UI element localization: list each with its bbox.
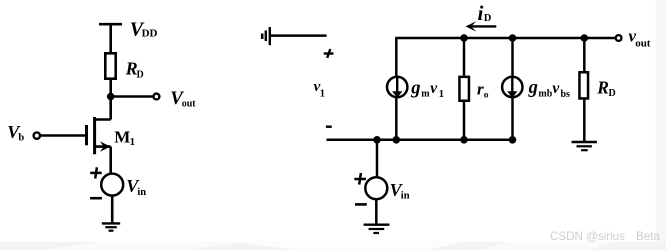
wire branch RD (top segment) [583, 38, 586, 73]
wire branch gm (top segment) [395, 38, 398, 78]
svg-text:m: m [421, 88, 430, 99]
svg-text:v: v [430, 80, 438, 97]
wire branch gmb (bottom segment) [511, 97, 514, 141]
label M1 [114, 127, 135, 148]
svg-text:CSDN @sirius: CSDN @sirius [550, 230, 625, 243]
wire branch ro (bottom segment) [463, 101, 466, 141]
svg-text:D: D [609, 88, 616, 99]
svg-text:i: i [478, 1, 484, 25]
node gm bottom [393, 136, 401, 144]
wire gate to Vb terminal [41, 134, 87, 137]
ground (right Vin) [364, 225, 390, 233]
label VDD [130, 18, 158, 40]
wire bus to Vin source (right) [376, 140, 379, 177]
svg-text:bs: bs [561, 89, 571, 100]
node drain junction [107, 93, 115, 101]
svg-text:1: 1 [439, 89, 444, 100]
resistor RD [105, 53, 115, 78]
wire branch RD to ground [583, 99, 586, 142]
node Vin junction [373, 136, 381, 144]
svg-text:b: b [18, 132, 24, 143]
label gmb vbs [528, 78, 570, 100]
resistor ro [459, 77, 469, 101]
svg-text:in: in [137, 187, 146, 198]
terminal Vb [34, 132, 40, 138]
source Vin (left) [101, 174, 123, 196]
label ro [477, 80, 489, 101]
label vout (right) [629, 26, 651, 49]
wire node to Vout terminal [111, 95, 153, 98]
label RD [125, 58, 144, 80]
svg-text:mb: mb [538, 88, 552, 99]
label RD (right) [596, 77, 615, 99]
label minus (left Vin) [90, 197, 102, 200]
svg-text:o: o [484, 91, 489, 101]
svg-text:g: g [528, 78, 538, 98]
source Vin (right) [365, 177, 387, 199]
label Vb [7, 122, 24, 144]
node gmb bottom [509, 136, 517, 144]
current source gmb*vbs [502, 77, 522, 98]
terminal Vout [154, 94, 160, 100]
label iD [478, 1, 492, 25]
terminal vout (right) [616, 35, 622, 41]
wire Vin to ground (left) [111, 196, 114, 223]
svg-text:out: out [182, 98, 197, 109]
node ro bottom [460, 136, 468, 144]
svg-text:1: 1 [320, 88, 325, 99]
svg-text:R: R [596, 77, 609, 97]
node gmb top [509, 34, 517, 42]
svg-text:in: in [401, 190, 410, 201]
svg-text:Beta: Beta [636, 230, 660, 243]
label minus (v1) [326, 125, 332, 127]
bottom bus wire [327, 139, 513, 142]
current arrow iD [466, 21, 497, 31]
watermark [550, 230, 660, 243]
wire resistor RD to drain node [109, 79, 112, 120]
label v1 [314, 79, 325, 99]
top bus wire [395, 37, 615, 40]
svg-text:g: g [410, 78, 420, 98]
VDD supply bar [99, 23, 122, 26]
label Vin (left) [126, 176, 146, 198]
resistor RD (right) [579, 72, 588, 98]
wire Vin to ground (right) [375, 199, 378, 225]
svg-text:out: out [635, 38, 651, 50]
svg-text:DD: DD [142, 27, 158, 39]
svg-text:v: v [552, 80, 560, 97]
ground (RD branch) [572, 142, 597, 150]
ground (left circuit) [102, 223, 120, 230]
node ro top [460, 34, 468, 42]
current source gm*v1 [387, 77, 407, 98]
label plus (right Vin) [354, 173, 366, 185]
gate terminal stub [262, 27, 326, 45]
wire branch ro (top segment) [463, 38, 466, 77]
svg-text:1: 1 [130, 136, 136, 148]
wire branch gm (bottom segment) [395, 97, 398, 141]
svg-text:D: D [484, 13, 491, 24]
label minus (right Vin) [355, 203, 367, 206]
node RD top [581, 34, 589, 42]
wire VDD bar to resistor RD [109, 24, 112, 53]
transistor M1 [87, 117, 111, 173]
label Vin (right) [390, 180, 410, 202]
svg-text:D: D [137, 69, 144, 80]
label plus (v1) [324, 49, 334, 58]
svg-text:M: M [114, 127, 130, 146]
label Vout [170, 88, 196, 109]
label plus (left Vin) [90, 167, 102, 178]
label gm v1 [410, 78, 444, 100]
wire branch gmb (top segment) [511, 38, 514, 78]
